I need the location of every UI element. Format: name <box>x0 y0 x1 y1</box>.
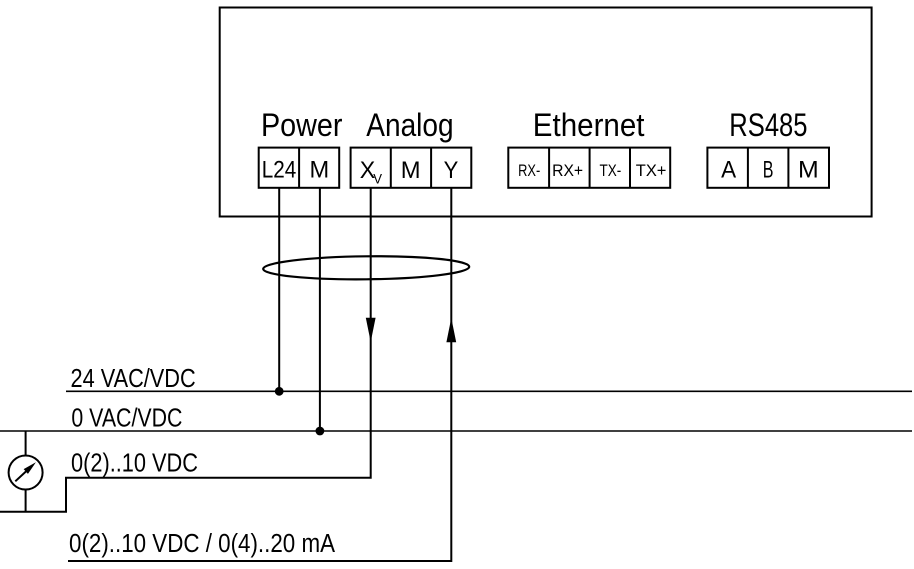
svg-text:0(2)..10 VDC / 0(4)..20 mA: 0(2)..10 VDC / 0(4)..20 mA <box>69 530 335 558</box>
bus line 0 VAC/VDC <box>0 430 912 432</box>
svg-text:M: M <box>401 157 421 184</box>
junction dot M / 0 VAC <box>316 427 325 436</box>
wire Xv to 0(2)..10 VDC line with step to left edge <box>0 188 371 512</box>
svg-text:A: A <box>721 156 736 183</box>
wire M to 0 VAC/VDC bus <box>319 188 321 431</box>
svg-text:M: M <box>798 156 819 183</box>
svg-text:TX+: TX+ <box>636 162 667 180</box>
terminal block Power <box>259 148 340 188</box>
svg-text:L24: L24 <box>262 156 297 183</box>
device outline U1 <box>220 8 872 217</box>
wire L24 to 24 VAC/VDC bus <box>278 188 280 391</box>
svg-text:Ethernet: Ethernet <box>533 107 645 143</box>
wire 0 VAC bus to sensor top <box>25 431 27 456</box>
svg-text:RS485: RS485 <box>729 107 807 143</box>
svg-text:M: M <box>310 156 330 183</box>
junction dot L24 / 24 VAC <box>275 387 284 396</box>
terminal block Analog <box>351 148 472 188</box>
arrow up on Y wire <box>446 318 456 342</box>
svg-text:B: B <box>763 156 774 183</box>
terminal block RS485 <box>707 148 829 188</box>
svg-text:Analog: Analog <box>366 107 453 143</box>
svg-text:TX-: TX- <box>600 162 622 180</box>
svg-text:Y: Y <box>444 157 459 184</box>
wire sensor bottom to step line <box>25 490 27 512</box>
svg-text:RX+: RX+ <box>552 162 583 180</box>
svg-text:Power: Power <box>261 107 343 143</box>
arrow down on Xv wire <box>366 318 376 342</box>
wire Y to 0(2)..10VDC / 0(4)..20mA line <box>68 188 451 561</box>
svg-text:0 VAC/VDC: 0 VAC/VDC <box>71 405 182 433</box>
cable bundle ellipse <box>263 255 469 280</box>
svg-text:24 VAC/VDC: 24 VAC/VDC <box>71 365 196 393</box>
terminal block Ethernet <box>508 148 670 188</box>
svg-text:0(2)..10 VDC: 0(2)..10 VDC <box>71 450 198 478</box>
svg-text:V: V <box>373 172 382 187</box>
meter needle <box>15 471 27 482</box>
bus line 24 VAC/VDC <box>66 390 912 392</box>
sensor/actuator symbol (meter circle) <box>9 456 43 490</box>
svg-text:RX-: RX- <box>518 162 540 180</box>
